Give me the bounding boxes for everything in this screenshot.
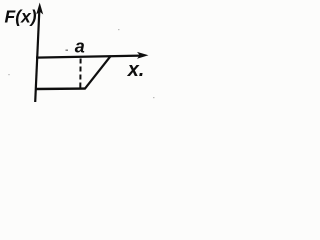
faint scan specks [118, 29, 120, 30]
svg-text:x.: x. [127, 59, 145, 81]
speck before a [66, 50, 69, 51]
x-axis arrowhead [137, 52, 149, 59]
y-axis shaft [35, 9, 39, 102]
dashed line at x=a [79, 59, 81, 89]
svg-text:a: a [75, 37, 85, 57]
function diagonal ramp [85, 56, 111, 89]
x-axis shaft [36, 56, 141, 58]
svg-text:F(x): F(x) [5, 7, 37, 27]
function low horizontal segment [36, 87, 86, 90]
y-axis arrowhead [36, 3, 43, 15]
